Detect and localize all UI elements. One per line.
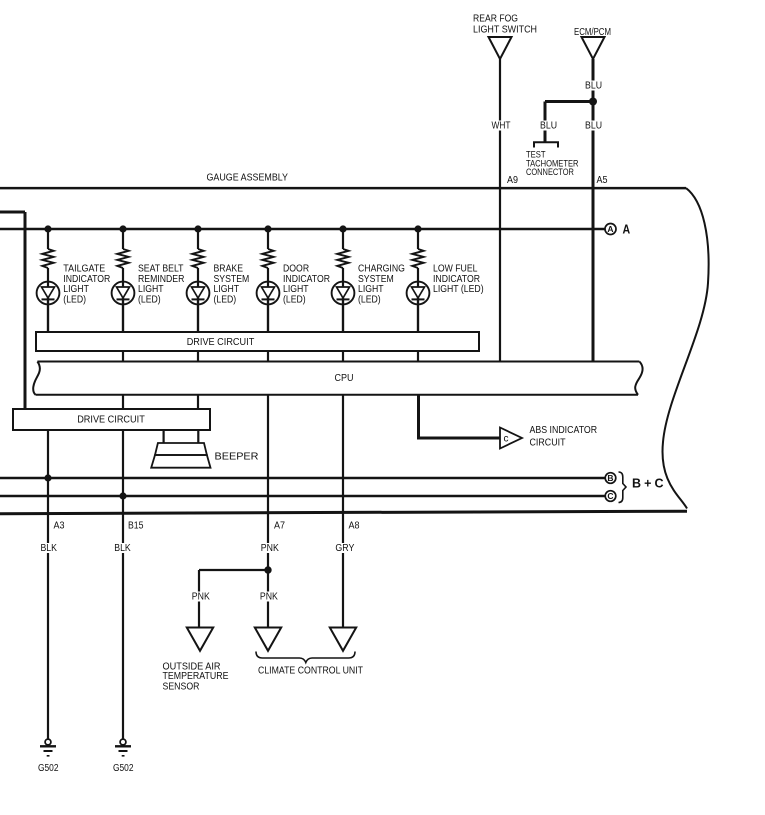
svg-text:A8: A8	[349, 521, 360, 532]
node dot column 1	[44, 225, 51, 232]
drive circuit box 1	[36, 332, 479, 351]
svg-text:BLU: BLU	[585, 121, 602, 132]
node dot column 4	[264, 225, 271, 232]
svg-text:ECM/PCM: ECM/PCM	[574, 27, 611, 38]
wire color label BLU top	[583, 81, 604, 91]
svg-text:INDICATOR: INDICATOR	[283, 274, 330, 285]
svg-text:A3: A3	[54, 521, 65, 532]
wire CPU to drive2 col3	[197, 394, 199, 409]
wire drive1 to CPU col2	[122, 351, 124, 361]
resistor + LED column 6 (low fuel indicator)	[407, 229, 430, 332]
svg-text:CHARGING: CHARGING	[358, 263, 405, 274]
beeper	[151, 430, 210, 468]
svg-text:C: C	[607, 491, 613, 501]
svg-text:INDICATOR: INDICATOR	[433, 274, 480, 285]
svg-text:G502: G502	[113, 763, 134, 774]
wire color label PNK (A7)	[260, 543, 280, 553]
svg-text:PNK: PNK	[260, 592, 278, 603]
wire bus B	[0, 477, 606, 480]
wire BLU branch horizontal (thick)	[545, 100, 593, 103]
svg-text:ABS INDICATOR: ABS INDICATOR	[530, 425, 598, 436]
connector triangle climate control 2	[330, 628, 356, 651]
svg-text:DRIVE CIRCUIT: DRIVE CIRCUIT	[187, 337, 255, 348]
svg-text:BLK: BLK	[40, 543, 57, 554]
node dot column 6	[414, 225, 421, 232]
svg-text:LIGHT: LIGHT	[63, 284, 89, 295]
node dot BLU junction	[589, 98, 597, 106]
svg-text:LIGHT: LIGHT	[358, 284, 384, 295]
svg-text:GRY: GRY	[335, 543, 354, 554]
svg-text:SYSTEM: SYSTEM	[214, 274, 250, 285]
svg-text:A9: A9	[507, 175, 518, 186]
gauge assembly box top edge	[0, 187, 686, 190]
svg-text:BLK: BLK	[114, 543, 131, 554]
svg-text:SEAT BELT: SEAT BELT	[138, 263, 184, 274]
wire CPU to drive2 colB15	[122, 394, 124, 409]
wire A3 column (drive2 to ground)	[47, 430, 49, 739]
wire color label BLK 1	[39, 543, 59, 553]
svg-text:REAR FOG: REAR FOG	[473, 14, 518, 25]
connector triangle climate control 1	[255, 628, 281, 651]
ABS triangle with c	[500, 428, 522, 449]
terminal A circle	[605, 224, 616, 235]
svg-text:DRIVE CIRCUIT: DRIVE CIRCUIT	[77, 415, 145, 426]
resistor + LED column 3 (brake system)	[187, 229, 210, 332]
wire ABS (thick)	[419, 394, 501, 438]
resistor + LED column 5 (charging system)	[332, 229, 355, 332]
svg-text:A: A	[607, 224, 613, 234]
svg-text:TAILGATE: TAILGATE	[63, 263, 105, 274]
wire drive1 to CPU col4	[267, 351, 269, 361]
wire B15 column (drive2 to ground)	[122, 430, 124, 739]
svg-text:(LED): (LED)	[63, 295, 86, 306]
resistor + LED column 4 (door indicator)	[257, 229, 280, 332]
svg-text:A5: A5	[597, 175, 608, 186]
gauge assembly box torn right edge	[662, 188, 708, 508]
svg-text:REMINDER: REMINDER	[138, 274, 184, 285]
underbrace climate control	[256, 652, 355, 663]
svg-text:G502: G502	[38, 763, 59, 774]
svg-text:TEMPERATURE: TEMPERATURE	[163, 671, 229, 682]
drive circuit box 2	[13, 409, 210, 430]
test tachometer connector bracket	[534, 142, 558, 147]
node dot A3 on B line	[44, 474, 51, 481]
node dot B15 on C line	[119, 492, 126, 499]
svg-text:LIGHT (LED): LIGHT (LED)	[433, 284, 484, 295]
svg-text:WHT: WHT	[492, 121, 511, 132]
svg-text:CLIMATE CONTROL UNIT: CLIMATE CONTROL UNIT	[258, 666, 363, 677]
wire PNK branch horizontal	[199, 569, 268, 571]
wire color label PNK (branch right)	[259, 592, 279, 602]
wire BLU branch vertical (thick)	[544, 102, 547, 143]
svg-text:INDICATOR: INDICATOR	[63, 274, 110, 285]
terminal C circle	[605, 491, 616, 502]
svg-text:LOW FUEL: LOW FUEL	[433, 263, 478, 274]
wire A8 column (CPU to climate control)	[342, 394, 344, 628]
svg-text:LIGHT: LIGHT	[283, 284, 309, 295]
terminal B circle	[605, 473, 616, 484]
svg-text:BLU: BLU	[585, 80, 602, 91]
connector triangle outside air temp sensor	[187, 628, 213, 651]
wire left vertical to drive circuit 2	[24, 212, 27, 409]
svg-text:PNK: PNK	[192, 592, 210, 603]
svg-text:B15: B15	[128, 521, 144, 532]
gauge assembly box bottom edge	[0, 511, 687, 514]
svg-text:LIGHT: LIGHT	[138, 284, 164, 295]
svg-text:(LED): (LED)	[283, 295, 306, 306]
wire color label PNK (branch left)	[191, 592, 211, 602]
wire BLU A5 (thick)	[592, 59, 595, 361]
wire bus A	[0, 228, 606, 230]
ground G502 left	[40, 739, 56, 756]
svg-text:(LED): (LED)	[138, 295, 161, 306]
svg-text:GAUGE ASSEMBLY: GAUGE ASSEMBLY	[207, 173, 289, 184]
wire color label GRY	[335, 543, 355, 553]
svg-text:BEEPER: BEEPER	[215, 452, 259, 463]
svg-text:LIGHT: LIGHT	[214, 284, 240, 295]
brace B+C	[619, 472, 627, 503]
rear fog light switch triangle	[489, 37, 512, 59]
wire A7 column (CPU to climate control)	[267, 394, 269, 628]
wire PNK branch vertical	[198, 570, 200, 628]
wire color label WHT	[490, 121, 512, 131]
svg-text:PNK: PNK	[261, 543, 279, 554]
node dot column 5	[339, 225, 346, 232]
resistor + LED column 2 (seat belt reminder)	[112, 229, 135, 332]
CPU box	[33, 362, 642, 395]
wire stub top-left (thick)	[0, 211, 25, 214]
svg-text:LIGHT SWITCH: LIGHT SWITCH	[473, 25, 537, 36]
node dot column 3	[194, 225, 201, 232]
svg-text:CPU: CPU	[335, 373, 354, 384]
wire WHT A9	[499, 59, 501, 361]
ECM/PCM triangle	[582, 37, 605, 59]
node dot column 2	[119, 225, 126, 232]
wire color label BLU branch	[539, 121, 559, 131]
svg-text:B: B	[607, 473, 613, 483]
wire drive1 to CPU col3	[197, 351, 199, 361]
wire bus C	[0, 495, 606, 498]
ground G502 right	[115, 739, 131, 756]
svg-text:B + C: B + C	[632, 477, 663, 491]
svg-text:CONNECTOR: CONNECTOR	[526, 167, 574, 177]
wire color label BLU main	[584, 121, 604, 131]
svg-text:BLU: BLU	[540, 121, 557, 132]
svg-text:A7: A7	[274, 521, 285, 532]
wire drive1 to CPU col5	[342, 351, 344, 361]
svg-text:CIRCUIT: CIRCUIT	[530, 438, 566, 449]
resistor + LED column 1 (tailgate indicator)	[37, 229, 60, 332]
svg-text:c: c	[504, 434, 509, 445]
svg-text:(LED): (LED)	[358, 295, 381, 306]
svg-text:(LED): (LED)	[214, 295, 237, 306]
svg-text:BRAKE: BRAKE	[214, 263, 244, 274]
svg-text:A: A	[623, 223, 631, 237]
svg-text:SYSTEM: SYSTEM	[358, 274, 394, 285]
wire drive1 to CPU col6	[417, 351, 419, 361]
wire color label BLK 2	[113, 543, 133, 553]
svg-text:DOOR: DOOR	[283, 263, 309, 274]
node dot PNK branch	[264, 566, 271, 573]
svg-text:SENSOR: SENSOR	[163, 682, 200, 693]
